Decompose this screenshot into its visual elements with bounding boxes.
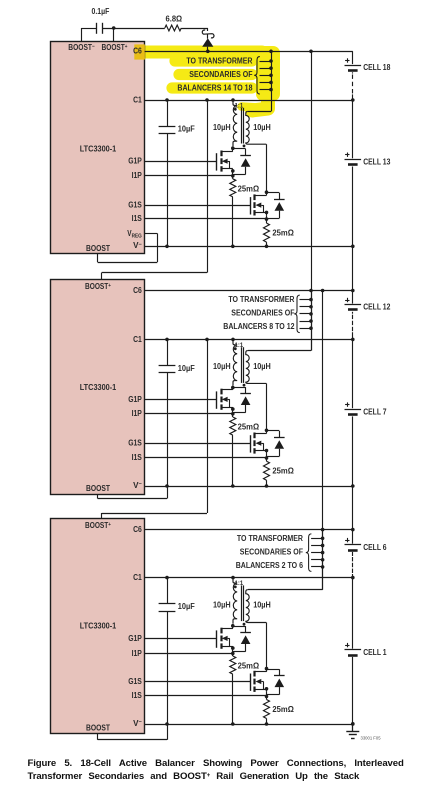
svg-text:0.1µF: 0.1µF xyxy=(92,7,110,16)
svg-text:10µF: 10µF xyxy=(178,125,195,134)
svg-text:BOOST+: BOOST+ xyxy=(85,521,112,530)
svg-text:10µH: 10µH xyxy=(213,600,231,609)
svg-text:CELL 13: CELL 13 xyxy=(363,157,391,166)
svg-text:25mΩ: 25mΩ xyxy=(238,423,260,432)
svg-text:BALANCERS 2 TO 6: BALANCERS 2 TO 6 xyxy=(236,561,304,570)
svg-text:SECONDARIES OF: SECONDARIES OF xyxy=(189,70,252,79)
svg-text:TO TRANSFORMER: TO TRANSFORMER xyxy=(237,534,303,543)
svg-text:10µH: 10µH xyxy=(253,123,271,132)
svg-text:G1P: G1P xyxy=(128,395,142,404)
svg-text:25mΩ: 25mΩ xyxy=(272,228,294,237)
svg-text:I1S: I1S xyxy=(132,453,143,462)
svg-text:CELL 12: CELL 12 xyxy=(363,303,391,312)
svg-text:LTC3300-1: LTC3300-1 xyxy=(80,145,117,154)
svg-text:CELL 1: CELL 1 xyxy=(363,648,387,657)
svg-text:10µF: 10µF xyxy=(178,602,195,611)
svg-text:BALANCERS 14 TO 18: BALANCERS 14 TO 18 xyxy=(177,84,253,93)
svg-text:33001 F05: 33001 F05 xyxy=(361,735,382,740)
svg-text:25mΩ: 25mΩ xyxy=(238,662,260,671)
svg-text:25mΩ: 25mΩ xyxy=(272,467,294,476)
svg-text:TO TRANSFORMER: TO TRANSFORMER xyxy=(186,57,252,66)
svg-text:BOOST−: BOOST− xyxy=(68,43,95,52)
svg-text:CELL 18: CELL 18 xyxy=(363,63,391,72)
svg-text:LTC3300-1: LTC3300-1 xyxy=(80,383,117,392)
svg-text:6.8Ω: 6.8Ω xyxy=(166,15,183,24)
svg-text:C6: C6 xyxy=(133,286,142,295)
svg-text:G1S: G1S xyxy=(128,201,142,210)
svg-text:10µH: 10µH xyxy=(213,362,231,371)
svg-text:BOOST+: BOOST+ xyxy=(102,43,129,52)
svg-text:C1: C1 xyxy=(133,335,142,344)
svg-text:I1P: I1P xyxy=(132,409,143,418)
svg-text:C1: C1 xyxy=(133,95,142,104)
svg-text:25mΩ: 25mΩ xyxy=(238,184,260,193)
svg-text:Figure 5. 18-Cell Active Balan: Figure 5. 18-Cell Active Balancer Showin… xyxy=(28,758,404,769)
svg-text:1:1: 1:1 xyxy=(235,342,244,349)
svg-text:BOOST: BOOST xyxy=(86,244,110,253)
svg-text:10µH: 10µH xyxy=(253,600,271,609)
svg-text:CELL 6: CELL 6 xyxy=(363,543,387,552)
svg-text:G1S: G1S xyxy=(128,677,142,686)
svg-text:LTC3300-1: LTC3300-1 xyxy=(80,622,117,631)
svg-text:Transformer Secondaries and BO: Transformer Secondaries and BOOST+ Rail … xyxy=(28,771,360,782)
svg-text:25mΩ: 25mΩ xyxy=(272,705,294,714)
svg-text:C6: C6 xyxy=(133,47,142,56)
svg-text:10µH: 10µH xyxy=(253,362,271,371)
svg-text:CELL 7: CELL 7 xyxy=(363,407,386,416)
svg-text:I1P: I1P xyxy=(132,171,143,180)
svg-text:C1: C1 xyxy=(133,573,142,582)
svg-text:BOOST: BOOST xyxy=(86,484,110,493)
svg-text:BOOST+: BOOST+ xyxy=(85,282,112,291)
svg-text:1:1: 1:1 xyxy=(235,580,244,587)
svg-text:SECONDARIES OF: SECONDARIES OF xyxy=(231,309,294,318)
svg-text:G1P: G1P xyxy=(128,157,142,166)
svg-text:BALANCERS 8 TO 12: BALANCERS 8 TO 12 xyxy=(223,322,295,331)
svg-text:G1P: G1P xyxy=(128,634,142,643)
svg-text:SECONDARIES OF: SECONDARIES OF xyxy=(240,547,303,556)
svg-text:10µH: 10µH xyxy=(213,123,231,132)
svg-text:C6: C6 xyxy=(133,525,142,534)
svg-text:TO TRANSFORMER: TO TRANSFORMER xyxy=(228,295,294,304)
svg-text:BOOST: BOOST xyxy=(86,723,110,732)
svg-text:G1S: G1S xyxy=(128,439,142,448)
svg-text:1:1: 1:1 xyxy=(235,103,244,110)
svg-text:10µF: 10µF xyxy=(178,364,195,373)
svg-text:I1S: I1S xyxy=(132,214,143,223)
svg-text:I1P: I1P xyxy=(132,649,143,658)
svg-text:I1S: I1S xyxy=(132,691,143,700)
